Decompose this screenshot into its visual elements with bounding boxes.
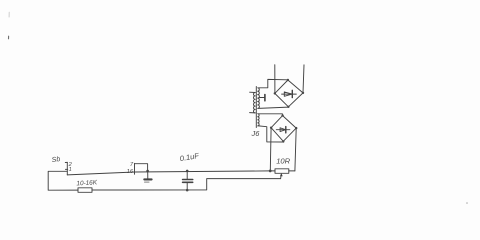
- wire secondary1 bottom to bridge bottom corner: [259, 107, 289, 108]
- node dots D2 corners: [270, 127, 272, 129]
- connector Sb bar: [66, 162, 68, 175]
- transformer T1 core: [255, 87, 257, 128]
- node dots D1 corners: [274, 92, 276, 94]
- svg-text:10R: 10R: [276, 156, 290, 165]
- IC pin bar: [134, 163, 136, 174]
- node junction capacitor bottom: [186, 189, 189, 192]
- wire main rail from Sb to junction: [67, 171, 270, 175]
- wire D2 left corner down to main rail junction: [269, 128, 272, 171]
- svg-text:10-16K: 10-16K: [76, 179, 98, 187]
- ground: [147, 171, 149, 179]
- resistor R1 10-16K box: [78, 188, 92, 193]
- diode inside D1: [282, 93, 297, 95]
- wire vertical up from D1 left corner: [274, 65, 276, 94]
- svg-text:16: 16: [127, 169, 134, 175]
- connector pin 2 tick: [65, 161, 67, 163]
- wire D2 right corner down to R2 right end: [295, 128, 296, 171]
- primary bottom stub: [250, 112, 256, 114]
- speck left dash: [8, 36, 10, 39]
- node junction capacitor top: [186, 170, 189, 173]
- wire secondary1 top to bridge top corner: [259, 79, 288, 87]
- wire secondary2 bottom to bridge D2 bottom corner: [259, 126, 284, 142]
- center tap terminal bar: [264, 95, 266, 101]
- wire pin7 to ground node: [135, 164, 148, 171]
- diode inside D2: [276, 129, 290, 131]
- speck bottom-right: [466, 202, 468, 204]
- svg-text:1: 1: [69, 167, 72, 173]
- svg-text:Sb: Sb: [51, 156, 61, 164]
- bridge rectifier D1 (top diamond): [275, 80, 303, 107]
- transformer primary winding: [253, 93, 255, 113]
- potentiometer R2 10R box: [275, 169, 289, 174]
- capacitor C1: [186, 171, 188, 179]
- speck top-left faint dash: [8, 12, 10, 17]
- wire bottom rail right of R1: [92, 179, 281, 190]
- wire secondary2 top to bridge D2 top corner: [259, 114, 283, 116]
- svg-text:7: 7: [130, 162, 134, 168]
- node junction pin7/gnd: [146, 170, 149, 173]
- primary top stub: [250, 91, 256, 93]
- svg-text:0.1uF: 0.1uF: [179, 151, 200, 163]
- bridge rectifier D2 (bottom diamond): [271, 116, 296, 142]
- R2 leads: [270, 170, 275, 172]
- wire left loop from Sb down to bottom rail: [48, 171, 78, 190]
- wire vertical up from D1 right corner: [303, 65, 304, 93]
- R2 wiper arrow: [280, 174, 283, 179]
- connector pin 1 tick: [66, 168, 68, 170]
- svg-text:J6: J6: [251, 129, 261, 138]
- secondary1 center tap stub: [260, 97, 265, 99]
- node junction main rail / D2: [269, 170, 272, 173]
- transformer secondary 1 winding: [258, 88, 260, 109]
- transformer secondary 2 winding: [258, 114, 259, 126]
